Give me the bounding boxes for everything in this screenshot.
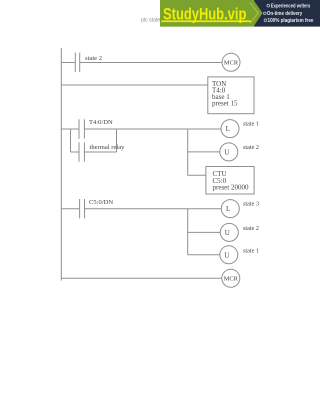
svg-text:Experienced writers: Experienced writers [271,4,311,10]
svg-text:L: L [226,125,230,133]
parallel branch right vertical [116,129,118,152]
timer TON T4:0 box [208,77,254,114]
rung 5 wire: rail to MCR coil [61,277,222,279]
svg-text:state 1: state 1 [243,247,259,254]
svg-text:MCR: MCR [224,276,239,283]
coil U state2 circle [220,143,238,161]
header: bullet icon 1 [267,4,270,7]
svg-text:T4:0/DN: T4:0/DN [89,119,113,126]
rung 3 output branch vertical [187,129,189,175]
ladder text labels [85,55,259,283]
rung 4 wire: contact to L coil [85,208,222,210]
svg-text:state 2: state 2 [243,144,259,151]
contact thermal relay bar 1 [78,142,80,161]
contact state2 bar 2 [79,53,81,72]
header: light green chevron accent [250,3,258,24]
parallel branch left vertical [70,129,72,152]
contact state2 bar 1 [74,53,76,72]
contact C5:0/DN bar 1 [79,199,81,218]
rung 4 output branch vertical [187,209,189,255]
wire to U coil state2 [188,151,220,153]
header: navy info panel [254,0,320,27]
coil U state1 (rung 4) circle [220,246,238,264]
contact thermal relay bar 2 [83,142,85,161]
wire to CTU box [188,174,206,176]
coil MCR (rung 5) circle [222,269,240,287]
svg-text:U: U [225,229,230,237]
svg-text:preset 20000: preset 20000 [213,184,249,192]
left power rail [60,48,62,281]
branch wire: thermal relay to rejoin [84,151,116,153]
svg-text:MCR: MCR [224,60,239,67]
rung 4 wire: rail to contact C5:0/DN [61,208,79,210]
coil L state3 circle [221,200,239,218]
coil L state1 circle [221,120,239,138]
svg-text:state 1: state 1 [243,121,259,128]
rung 1 wire: contact to MCR coil [80,62,222,64]
svg-text:thermal relay: thermal relay [90,144,126,151]
rung 1 wire: rail to contact [61,62,75,64]
coil MCR (rung 1) circle [222,53,240,71]
contact T4:0/DN bar 1 [78,119,80,138]
coil U state2 (rung 4) circle [220,223,238,241]
svg-text:preset 15: preset 15 [212,100,238,108]
branch wire to thermal relay contact [71,151,80,153]
ladder diagram [61,48,254,287]
svg-text:U: U [224,148,229,156]
counter CTU C5:0 box [206,167,254,195]
wire to U coil state1 (rung 4) [188,254,220,256]
rung 3 wire: contact to branch and L coil [84,128,221,130]
svg-text:state 2: state 2 [243,225,259,232]
svg-text:L: L [226,205,230,213]
svg-text:state 2: state 2 [85,55,102,62]
svg-text:C5:0/DN: C5:0/DN [89,199,113,206]
svg-text:On-time delivery: On-time delivery [267,11,303,17]
contact C5:0/DN bar 2 [84,199,86,218]
svg-text:state 3: state 3 [243,201,259,208]
header: green banner with arrow tip [160,0,263,27]
header: logo underline [162,20,252,22]
svg-text:plc state: plc state [141,18,160,24]
wire to U coil state2 (rung 4) [188,231,221,233]
header: StudyHub.vip logo text [163,6,246,24]
svg-text:U: U [224,251,229,259]
rung 2 wire: rail to TON box [61,84,208,86]
contact T4:0/DN bar 2 [83,119,85,138]
rung 3 wire: rail to contact T4:0/DN [61,128,79,130]
header: bullet icon 2 [264,12,267,15]
header: bullet icon 3 [264,19,267,22]
svg-text:100% plagiarism free: 100% plagiarism free [268,18,314,24]
